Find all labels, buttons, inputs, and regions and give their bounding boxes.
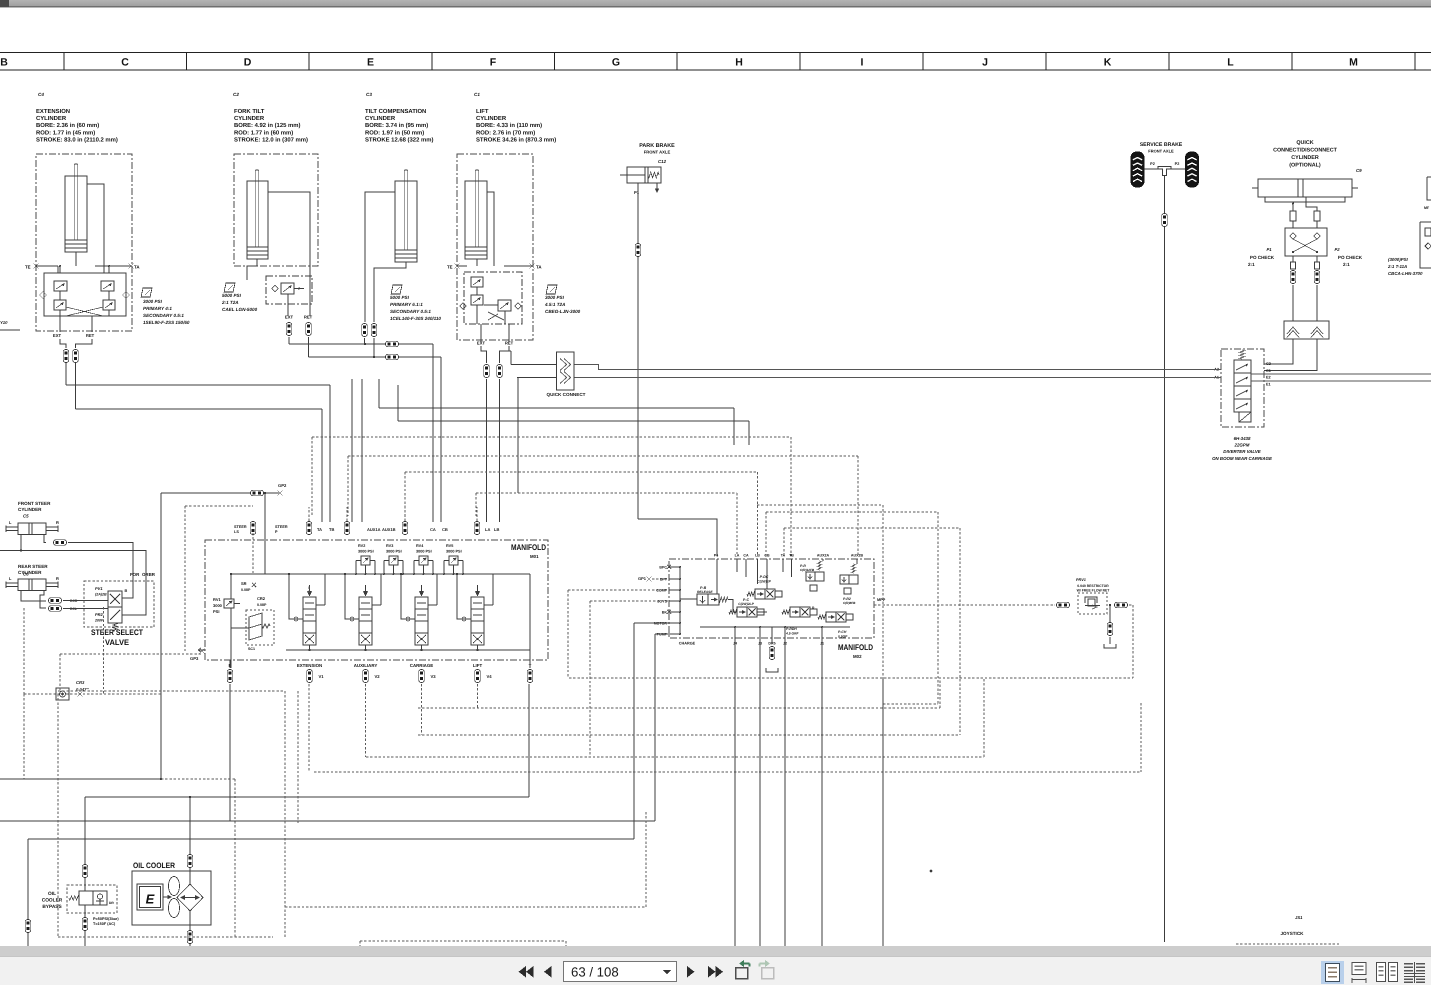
wire: [58, 690, 285, 692]
wire: [922, 53, 924, 71]
wire: [500, 346, 510, 363]
wire spool feed: [457, 574, 471, 619]
wire: [428, 604, 437, 606]
wire: [161, 492, 279, 494]
wire: [484, 604, 493, 606]
cylinder C2 fork tilt cylinder: [247, 170, 268, 259]
spool feed arrow: [363, 591, 368, 597]
svg-text:RET: RET: [505, 341, 514, 346]
svg-text:R: R: [56, 520, 59, 525]
svg-text:QUICK: QUICK: [1296, 140, 1313, 146]
wire: [633, 623, 635, 839]
svg-text:TA: TA: [317, 527, 322, 532]
check valve: [515, 303, 522, 310]
check valve: [123, 292, 130, 299]
wire: [312, 436, 791, 438]
svg-text:CA: CA: [430, 527, 436, 532]
svg-text:CR2: CR2: [257, 596, 266, 601]
park brake actuator C12: [620, 167, 661, 192]
svg-text:GP1: GP1: [638, 576, 647, 581]
diverter valve solenoid box: [1239, 412, 1251, 422]
valve charge block: [697, 594, 728, 605]
wire: [1291, 53, 1293, 71]
wire: [85, 796, 529, 798]
wire: [492, 574, 494, 605]
wire: [421, 684, 423, 735]
wire: [476, 507, 478, 521]
wire: [1306, 197, 1317, 211]
layout icon two pages: [1377, 963, 1386, 982]
wire: [476, 259, 478, 266]
cylinder C1 lift cylinder: [465, 170, 487, 259]
wire: [504, 265, 533, 267]
wire: [229, 660, 231, 668]
svg-text:CYLINDER: CYLINDER: [1291, 155, 1319, 161]
wire: [766, 559, 768, 589]
wire: [529, 650, 531, 668]
valve element: [281, 283, 294, 294]
svg-text:AUX2B: AUX2B: [851, 554, 864, 558]
svg-text:COMP: COMP: [656, 589, 667, 593]
svg-text:SECONDARY 0.5:1: SECONDARY 0.5:1: [390, 309, 431, 314]
svg-text:BORE: 3.74 in (95 mm): BORE: 3.74 in (95 mm): [365, 122, 428, 129]
wire: [366, 756, 984, 758]
svg-text:DIVERTER VALVE: DIVERTER VALVE: [1223, 449, 1261, 454]
fitting rear steer 1: [49, 598, 62, 604]
svg-text:AUX1B: AUX1B: [382, 527, 396, 532]
svg-text:LS: LS: [234, 530, 239, 534]
wire: [669, 589, 680, 591]
svg-text:PO CHECK: PO CHECK: [1338, 255, 1363, 260]
quick connect coupler block: [557, 352, 575, 390]
valve element: [54, 300, 66, 310]
wire: [1316, 221, 1318, 228]
svg-text:ROD: 1.77 in (60 mm): ROD: 1.77 in (60 mm): [234, 129, 293, 136]
check valve: [40, 292, 47, 299]
wire: [347, 456, 349, 516]
wire: [36, 265, 58, 267]
wire: [574, 377, 1221, 379]
wire: [185, 505, 253, 507]
manifold M01 boundary: [205, 540, 548, 660]
port fitting manifold M01: [344, 522, 350, 535]
fitting stub: [1290, 211, 1296, 221]
svg-text:0.08P: 0.08P: [241, 588, 251, 592]
fitting P: [227, 670, 233, 683]
spool feed arrow: [475, 591, 480, 597]
wire: [63, 53, 65, 71]
valve C3 note icon: [391, 285, 402, 294]
chevron symbol: [1287, 327, 1299, 338]
wire: [329, 385, 331, 522]
wire: [477, 585, 479, 591]
fitting GP2: [251, 490, 264, 496]
restrictor dashed box: [1078, 593, 1107, 614]
wire: [634, 622, 669, 624]
svg-text:CB: CB: [442, 527, 448, 532]
wire: [346, 507, 348, 521]
wire: [568, 589, 669, 591]
svg-text:DR: DR: [109, 901, 114, 905]
fitting MPP out: [1115, 602, 1128, 608]
GP3 test point: [199, 648, 204, 653]
wire: [509, 350, 511, 352]
svg-text:PUMP: PUMP: [657, 633, 668, 637]
wire: [365, 645, 367, 650]
wire: [286, 649, 530, 651]
wire: [0, 778, 161, 780]
wire: [421, 585, 423, 591]
wire: [790, 437, 792, 556]
svg-text:5000 PSI: 5000 PSI: [390, 295, 410, 300]
svg-text:CHARGE: CHARGE: [679, 642, 696, 646]
wire: [565, 941, 567, 947]
wire: [476, 305, 478, 324]
wire: [508, 324, 510, 342]
wire: [1109, 637, 1111, 644]
svg-text:C6: C6: [23, 572, 29, 577]
svg-text:RV1: RV1: [213, 597, 221, 602]
svg-text:E: E: [146, 892, 155, 907]
svg-text:H: H: [735, 57, 743, 69]
fitting QC line 1: [1290, 271, 1296, 284]
svg-text:STEER: STEER: [234, 525, 247, 529]
wire: [529, 574, 531, 650]
svg-text:QUICK CONNECT: QUICK CONNECT: [547, 392, 586, 397]
wire: [57, 694, 59, 937]
wire: [1132, 605, 1134, 678]
wire: [499, 379, 501, 522]
wire: [654, 634, 656, 821]
steer select valve body: [108, 591, 122, 631]
layout icon two page continuous: [1404, 963, 1413, 965]
svg-text:C9: C9: [1356, 168, 1362, 173]
wire spool feed: [289, 574, 303, 619]
wire: [487, 192, 494, 266]
wire: [589, 601, 591, 757]
wire: [289, 343, 433, 345]
svg-text:3000 PSI: 3000 PSI: [386, 550, 402, 554]
wire: [700, 626, 850, 628]
wire: [716, 559, 718, 594]
svg-text:SERVICE BRAKE: SERVICE BRAKE: [1140, 142, 1183, 148]
toolbar previous view icon: [736, 968, 748, 979]
wire: [421, 645, 423, 650]
wire quick connect to diverter A2: [574, 365, 1221, 370]
wire: [822, 559, 824, 561]
wire: [1293, 239, 1317, 252]
restrictor check valve: [1085, 597, 1100, 609]
wire: [378, 379, 380, 408]
wire: [733, 408, 735, 445]
wire: [1236, 943, 1340, 945]
tire right front: [1185, 152, 1199, 188]
svg-text:E1: E1: [1266, 383, 1271, 387]
svg-text:BYPASS: BYPASS: [42, 904, 62, 910]
wire: [457, 265, 467, 267]
cylinder C6 rear steer: [6, 579, 58, 591]
wire: [66, 307, 103, 316]
port fitting manifold M01: [402, 522, 408, 535]
cooler diamond: [177, 884, 203, 911]
svg-text:BORE: 4.33 in (110 mm): BORE: 4.33 in (110 mm): [476, 122, 542, 129]
svg-text:I: I: [861, 57, 864, 69]
wire: [669, 578, 680, 580]
wire: [874, 604, 1055, 606]
svg-text:RV5: RV5: [446, 544, 453, 548]
wire: [59, 654, 61, 694]
wire: [511, 364, 557, 366]
toolbar previous page button: [544, 966, 552, 978]
tire left front: [1131, 152, 1145, 188]
svg-text:P2: P2: [1150, 162, 1155, 166]
spool feed arrow: [419, 591, 424, 597]
fitting bypass out: [82, 918, 88, 931]
svg-text:CARRIAGE: CARRIAGE: [410, 663, 433, 668]
svg-text:JOYSTICK: JOYSTICK: [1281, 931, 1305, 936]
wire: [103, 607, 105, 694]
svg-text:22GPM: 22GPM: [1234, 443, 1250, 448]
wire: [231, 573, 530, 575]
fitting park brake line: [635, 244, 641, 257]
svg-text:MANIFOLD: MANIFOLD: [511, 543, 546, 552]
wire: [765, 512, 767, 556]
layout icon single page active: [1321, 961, 1344, 984]
valve element: [103, 300, 115, 310]
fitting inline bus 2: [386, 354, 399, 360]
port TE marker: [455, 264, 460, 269]
wire: [645, 812, 647, 907]
wire: [821, 638, 823, 947]
svg-text:V2: V2: [375, 674, 381, 679]
port TA marker: [129, 264, 134, 269]
fitting C3 EXT: [362, 324, 368, 337]
wire: [1045, 53, 1047, 71]
spool feed arrow: [307, 591, 312, 597]
svg-text:P1: P1: [1266, 247, 1272, 252]
svg-text:0.5GP: 0.5GP: [838, 635, 848, 639]
wire: [65, 363, 67, 385]
svg-text:C3: C3: [366, 92, 372, 97]
wire: [234, 779, 236, 937]
diverter valve dash-dot boundary: [1221, 349, 1264, 427]
pressure reducing valve M02 f: [840, 564, 858, 594]
BK test point: [667, 610, 671, 614]
chevron symbol lower: [560, 372, 571, 384]
svg-text:EXTENSION: EXTENSION: [36, 108, 70, 115]
wire: [59, 291, 61, 300]
wire: [28, 838, 634, 840]
svg-text:E: E: [367, 57, 374, 69]
wire: [285, 906, 646, 908]
GP2 test point: [277, 490, 282, 495]
valve C1 note icon: [546, 285, 557, 294]
drawing column header band: [0, 53, 1431, 71]
scrollbar strip: [0, 946, 1431, 957]
svg-text:TE: TE: [447, 265, 453, 270]
svg-text:C(2W)2P: C(2W)2P: [757, 580, 771, 584]
svg-text:2:1 T2A: 2:1 T2A: [221, 300, 239, 305]
valve element: [471, 295, 483, 305]
svg-text:C2: C2: [233, 92, 239, 97]
svg-text:SECONDARY 0.5:1: SECONDARY 0.5:1: [143, 313, 184, 318]
port TE marker: [34, 264, 39, 269]
cylinder C9 quick connect cylinder: [1252, 179, 1358, 202]
fitting stub: [1291, 262, 1296, 269]
wire: [669, 622, 680, 624]
svg-text:FRONT STEER: FRONT STEER: [18, 501, 51, 506]
svg-text:AUX1A: AUX1A: [367, 527, 381, 532]
wire: [264, 523, 266, 574]
svg-text:200P: 200P: [94, 619, 104, 623]
wire: [324, 574, 326, 605]
wire: [58, 936, 273, 938]
svg-text:CA: CA: [743, 554, 749, 558]
wire: [481, 346, 487, 363]
svg-text:BK: BK: [662, 611, 668, 615]
wire: [784, 627, 786, 638]
wire: [60, 653, 201, 655]
wire: [569, 677, 1133, 679]
svg-text:MOTOR: MOTOR: [654, 622, 668, 626]
wire: [1251, 380, 1431, 382]
check valve: [1290, 233, 1296, 239]
cylinder C5 front steer: [6, 523, 58, 535]
wire: [268, 192, 310, 316]
svg-text:TA: TA: [536, 265, 542, 270]
fitting C1 RET: [497, 365, 503, 378]
svg-text:C12: C12: [658, 159, 667, 164]
svg-text:CB: CB: [764, 554, 770, 558]
svg-text:(2A)2B: (2A)2B: [95, 593, 107, 597]
wire: [59, 266, 61, 273]
fitting QC line 2: [1314, 271, 1320, 284]
wire: [348, 455, 858, 457]
svg-text:(3000)PSI: (3000)PSI: [1388, 257, 1409, 262]
wire: [359, 941, 361, 947]
svg-text:PARK BRAKE: PARK BRAKE: [639, 143, 675, 149]
wire: [771, 627, 773, 643]
svg-text:OIL: OIL: [48, 891, 56, 897]
valve section V2 AUXILIARY: [359, 597, 372, 645]
fan arrow: [163, 895, 171, 898]
CR2 pilot dashed box: [246, 610, 274, 645]
wire: [440, 357, 442, 522]
svg-text:CYLINDER: CYLINDER: [234, 115, 265, 122]
wire: [230, 574, 232, 599]
wire: [1140, 703, 1142, 772]
wire: [939, 678, 941, 708]
svg-text:2:1: 2:1: [1248, 262, 1255, 267]
svg-text:Y10: Y10: [0, 320, 8, 325]
check valve: [272, 285, 279, 292]
wire: [1292, 221, 1294, 228]
svg-text:PSI: PSI: [213, 609, 219, 614]
svg-text:E2: E2: [1266, 376, 1271, 380]
fitting cooler out: [187, 931, 193, 944]
wire: [1251, 373, 1431, 375]
wire: [59, 310, 61, 316]
wire: [757, 504, 883, 506]
svg-text:B: B: [0, 57, 8, 69]
svg-text:R: R: [56, 576, 59, 581]
layout icon continuous: [1352, 963, 1366, 975]
wire: [679, 567, 681, 634]
wire: [247, 259, 257, 280]
svg-text:FRONT AXLE: FRONT AXLE: [1148, 149, 1174, 154]
svg-text:LB: LB: [494, 527, 499, 532]
wire: [759, 638, 761, 947]
svg-text:RET: RET: [304, 315, 313, 320]
svg-text:PRIMARY 4:1: PRIMARY 4:1: [143, 306, 172, 311]
wire: [669, 600, 680, 602]
svg-text:STROKE: 12.0 in (307 mm): STROKE: 12.0 in (307 mm): [234, 136, 308, 143]
wire: [0, 820, 655, 822]
svg-text:COOLER: COOLER: [42, 898, 63, 904]
svg-text:PRV1: PRV1: [1076, 578, 1086, 582]
valve cluster C2 counterbalance: [266, 276, 312, 304]
steer select valve boundary: [84, 581, 154, 627]
svg-text:C(2W)2LP: C(2W)2LP: [738, 602, 754, 606]
wire: [883, 703, 938, 705]
wire: [398, 420, 749, 422]
svg-text:C1: C1: [1266, 369, 1271, 373]
wire: [757, 611, 767, 613]
wire: [404, 472, 406, 516]
svg-text:PV1: PV1: [95, 586, 103, 591]
svg-text:EXTENSION: EXTENSION: [297, 663, 322, 668]
wire: [734, 627, 736, 638]
port TA marker: [530, 264, 535, 269]
wire: [309, 585, 311, 591]
wire: [484, 304, 498, 306]
wire: [309, 645, 311, 650]
hose rupture valve block: [1284, 321, 1329, 339]
svg-text:G: G: [612, 57, 620, 69]
wire: [372, 604, 381, 606]
wire: [983, 678, 985, 757]
toolbar page number box: [564, 962, 677, 982]
wire: [63, 600, 108, 602]
wire: [84, 905, 86, 947]
wire: [380, 574, 382, 605]
svg-text:CYLINDER: CYLINDER: [365, 115, 396, 122]
wire: [745, 559, 747, 577]
wire: [264, 493, 266, 523]
toolbar next page button: [687, 966, 695, 978]
bypass valve boundary: [67, 885, 117, 913]
toolbar next view icon disabled: [762, 968, 774, 979]
svg-text:P-RDH: P-RDH: [786, 627, 797, 631]
fitting C2 EXT: [286, 323, 292, 336]
svg-text:CYLINDER: CYLINDER: [476, 115, 507, 122]
wire: [1164, 176, 1166, 943]
fitting C1 EXT: [484, 365, 490, 378]
wire: [882, 678, 884, 947]
wire: [475, 493, 477, 516]
valve section V3 CARRIAGE: [415, 597, 428, 645]
orifice CR3: [56, 688, 69, 700]
wire: [365, 684, 367, 757]
wire: [1316, 285, 1318, 321]
wire: [431, 53, 433, 71]
svg-text:P1: P1: [634, 190, 640, 195]
wire: [567, 590, 569, 678]
diverter valve body: [1234, 350, 1251, 412]
wire: [27, 839, 29, 947]
svg-text:W/ FREE FLOW RET: W/ FREE FLOW RET: [1077, 589, 1111, 593]
arrow left border: [198, 648, 205, 652]
